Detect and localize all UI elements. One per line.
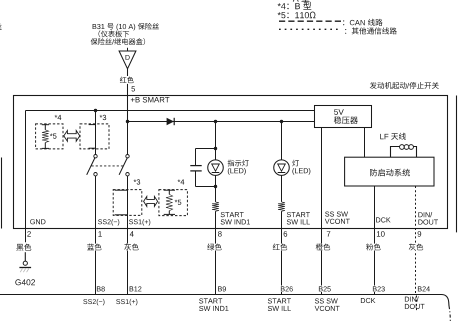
+B feed wire (horizontal, to 5V regulator)	[128, 121, 315, 123]
double arrow (variant alternative, lower)	[144, 196, 158, 206]
switch SS1 top contact	[126, 155, 129, 158]
wire color 红色 (red)	[119, 76, 135, 84]
wire color 橙色 (orange)	[315, 244, 331, 251]
fuse stub	[127, 48, 129, 51]
variant box *4 (with resistor, dashed)	[36, 124, 63, 149]
label *4 (top)	[55, 115, 62, 120]
pin number 4	[130, 231, 134, 236]
wire color 绿色 (green)	[207, 244, 223, 251]
switch SS2 top contact	[94, 155, 97, 158]
fuse B31 label line 3	[91, 38, 145, 45]
label *3 (top)	[100, 115, 107, 120]
connector outline (horizontal)	[0, 295, 449, 307]
switch SS2 blade	[87, 157, 95, 174]
signal START SW IND1 bottom line1	[199, 298, 222, 303]
terminal B12	[129, 286, 142, 293]
pin label GND	[30, 219, 45, 224]
wire color 粉色 (pink)	[366, 244, 382, 251]
wire SS1 branch from +B junction to contact	[127, 122, 129, 155]
variant box *3 (direct wire, dashed)	[80, 124, 109, 149]
pin number 7	[327, 231, 331, 236]
resistor R1 (indicator)	[212, 202, 219, 211]
terminal B23	[372, 286, 385, 293]
label 指示灯	[228, 160, 249, 167]
wire number 5	[132, 86, 136, 91]
label SW IND1	[221, 219, 250, 224]
wire color 红色 (red) pin6	[272, 244, 288, 251]
variant box *4 lower (with resistor, dashed)	[159, 190, 188, 216]
terminal B8	[96, 286, 105, 293]
pin number 6	[284, 231, 288, 237]
double arrow (variant alternative, top)	[64, 131, 80, 142]
connector outline continuation (dash-dot curve)	[449, 306, 450, 323]
signal START SW IND1 bottom line2	[199, 306, 228, 311]
wire 5V regulator to immobilizer	[364, 128, 366, 158]
pin number 8	[218, 231, 222, 237]
junction indicator LED branch	[214, 120, 217, 123]
pin number 10	[377, 231, 385, 237]
legend *5 110 ohm	[278, 12, 316, 19]
signal SS SW VCONT bottom line1	[315, 298, 338, 303]
indicator LED (指示灯)	[208, 160, 224, 176]
stub contacts inside *3 box	[89, 124, 96, 126]
variant box *3 lower (direct wire, dashed)	[113, 190, 142, 216]
label 灯	[292, 160, 299, 167]
legend CAN line sample (dashed)	[279, 20, 341, 22]
wire DCK to pin 10	[374, 186, 376, 295]
pin number 1	[98, 231, 101, 236]
wire DIN/DOUT below connector (dashed)	[416, 296, 418, 312]
pin number 9	[418, 231, 422, 237]
signal START SW ILL bottom line1	[268, 298, 291, 303]
5V regulator box	[315, 106, 372, 128]
fuse B31 label line 2	[99, 30, 130, 37]
label VCONT	[325, 219, 350, 224]
label DIN/	[417, 211, 432, 218]
ground symbol G402	[24, 252, 26, 261]
resistor *5 (110 ohm) inside *4 box	[42, 124, 49, 126]
wire below illumination LED	[281, 175, 283, 202]
resistor *5 (110 ohm) inside lower *4 box	[164, 189, 175, 191]
unit label 发动机起动/停止开关 (engine start/stop switch)	[370, 82, 439, 89]
signal DIN/DOUT bottom line2	[405, 304, 425, 309]
signal SS1(+) bottom	[116, 299, 137, 306]
adjacent unit border (left edge, clipped)	[1, 158, 3, 229]
resistor R2 (illumination)	[278, 202, 285, 211]
label LF 天线	[380, 133, 406, 140]
wire 5V regulator to SS SW VCONT pin 7	[321, 128, 323, 295]
junction capacitor top	[214, 147, 217, 150]
terminal B25	[318, 286, 331, 293]
label DOUT	[417, 219, 438, 226]
label *5 (lower)	[175, 200, 182, 205]
fuse B31 label line 1	[93, 23, 159, 31]
label (LED) indicator	[228, 168, 246, 175]
capacitor C1 (parallel with indicator LED)	[196, 148, 216, 150]
signal SS SW VCONT bottom line2	[315, 306, 340, 311]
stub contacts inside lower *3 box	[115, 189, 128, 191]
pin label SS2(-)	[98, 219, 119, 226]
wire SS2 to pin 1	[95, 176, 97, 295]
terminal B24	[417, 286, 430, 293]
illumination LED (灯)	[274, 160, 290, 176]
pin label SS1(+)	[129, 219, 150, 226]
junction capacitor bottom	[214, 185, 217, 188]
switch SS1 bottom contact	[126, 173, 129, 176]
wire to pin 6	[281, 211, 283, 294]
signal START SW ILL bottom line2	[268, 306, 291, 311]
junction SS2 branch on bus	[94, 109, 97, 112]
wire to pin 8	[215, 211, 217, 294]
wire color 蓝色 (blue)	[86, 244, 102, 251]
legend other communication line text	[345, 27, 397, 34]
label *5 (top)	[50, 134, 57, 139]
unit box engine start/stop switch	[14, 96, 448, 229]
junction +B SMART at fuse wire	[126, 120, 129, 123]
junction illumination LED branch	[280, 120, 283, 123]
switch coupler (dashed link)	[92, 165, 125, 167]
label *4 (lower)	[178, 179, 185, 184]
label 5V	[334, 109, 344, 115]
diode D1 on +B feed	[167, 118, 174, 125]
GND bus wire (horizontal)	[26, 110, 315, 112]
switch SS2 bottom contact	[94, 173, 97, 176]
wire DIN/DOUT to pin 9 (dashed)	[415, 186, 417, 295]
label *3 (lower)	[134, 179, 141, 184]
wire illumination LED branch	[281, 122, 283, 161]
signal SS2(-) bottom	[83, 299, 104, 306]
wire red from fuse to +B SMART junction	[127, 69, 129, 122]
label START (ind1)	[221, 212, 244, 217]
pin number 2	[27, 231, 31, 236]
adjacent unit border (right edge)	[456, 96, 458, 233]
wire SS1 to pin 4	[127, 176, 129, 295]
wire color 灰色 (gray) pin4	[124, 244, 140, 251]
signal DIN/DOUT bottom line1	[405, 296, 419, 301]
partial text at left edge (clipped)	[0, 24, 2, 30]
switch SS1 blade	[119, 157, 127, 174]
label SW ILL	[287, 219, 310, 224]
terminal B26	[280, 286, 293, 293]
LF antenna coil	[391, 147, 417, 158]
fuse letter D	[126, 55, 130, 60]
terminal B9	[217, 286, 226, 293]
label START (ill)	[287, 212, 310, 217]
legend *4 type B	[278, 2, 312, 10]
fuse D triangle symbol	[119, 51, 136, 69]
wire color 灰色 (gray) pin9	[408, 244, 424, 251]
wire indicator LED branch	[215, 122, 217, 160]
label SS SW	[325, 212, 348, 217]
wire color 黑色 (black)	[16, 244, 31, 251]
wire GND pin 2 to ground	[25, 229, 27, 243]
wire below indicator LED	[215, 175, 217, 202]
wire SS2 branch from bus to contact	[95, 111, 97, 155]
immobilizer box 防启动系统	[345, 157, 434, 186]
label DCK	[376, 217, 391, 222]
GND riser wire to pin 2	[25, 111, 27, 229]
legend CAN line text	[343, 19, 383, 26]
net label +B SMART	[131, 97, 170, 103]
label 稳压器	[334, 116, 358, 124]
label G402	[15, 279, 35, 285]
signal DCK bottom	[361, 298, 376, 303]
label 防启动系统	[370, 169, 410, 177]
label (LED) illumination	[292, 168, 310, 175]
partial legend line *3 (clipped at top)	[293, 0, 310, 2]
legend other-communication line sample (dotted)	[279, 28, 341, 30]
